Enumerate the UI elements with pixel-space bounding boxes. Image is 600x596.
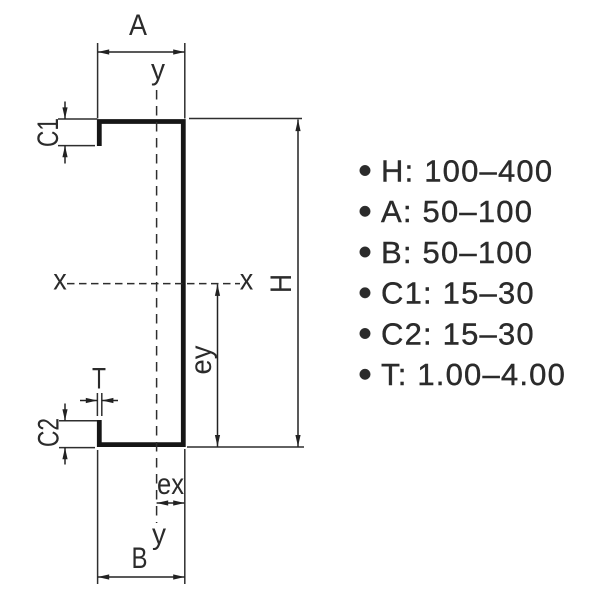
dimension B extension lines xyxy=(98,449,185,584)
svg-text:B: 50–100: B: 50–100 xyxy=(381,235,533,270)
dimension ey line with arrows xyxy=(215,284,220,446)
list bullet 4 xyxy=(360,288,371,299)
svg-text:T: T xyxy=(92,363,106,396)
svg-text:C2: 15–30: C2: 15–30 xyxy=(381,316,535,351)
svg-text:ex: ex xyxy=(157,468,184,501)
svg-text:x: x xyxy=(53,264,67,297)
list bullet 3 xyxy=(360,247,371,258)
dimension C2 extension lines xyxy=(59,421,97,448)
dimension C2 arrows outside xyxy=(62,404,67,465)
dimension A extension lines xyxy=(98,43,185,119)
C-profile xyxy=(99,122,183,445)
svg-text:A: A xyxy=(129,9,147,42)
svg-text:B: B xyxy=(132,542,148,575)
svg-text:y: y xyxy=(152,518,166,551)
svg-text:H: H xyxy=(265,274,298,293)
dimension A line with arrows xyxy=(98,49,185,54)
svg-text:x: x xyxy=(240,264,254,297)
svg-text:T: 1.00–4.00: T: 1.00–4.00 xyxy=(381,357,566,392)
list bullet 6 xyxy=(360,369,371,380)
list bullet 5 xyxy=(360,328,371,339)
svg-text:H: 100–400: H: 100–400 xyxy=(381,153,553,188)
x-axis dashed centerline xyxy=(67,283,240,285)
svg-text:y: y xyxy=(151,54,165,87)
y-axis dashed centerline xyxy=(156,90,158,523)
dimension C1 arrows outside xyxy=(62,102,67,164)
list bullet 1 xyxy=(360,165,371,176)
dimension B line with arrows xyxy=(98,574,185,579)
parameter list xyxy=(360,153,566,392)
svg-text:C1: 15–30: C1: 15–30 xyxy=(381,276,535,311)
svg-text:C1: C1 xyxy=(32,118,65,147)
dimension T arrows xyxy=(80,398,118,403)
dimension H line with arrows xyxy=(295,120,300,447)
svg-text:A: 50–100: A: 50–100 xyxy=(381,194,533,229)
list bullet 2 xyxy=(360,206,371,217)
dimension T ticks xyxy=(97,393,101,416)
svg-text:ey: ey xyxy=(185,346,218,375)
dimension H extension lines xyxy=(187,119,304,448)
svg-text:C2: C2 xyxy=(33,418,66,447)
dimension C1 extension lines xyxy=(58,119,97,146)
dimension ex line with arrows xyxy=(157,500,185,505)
